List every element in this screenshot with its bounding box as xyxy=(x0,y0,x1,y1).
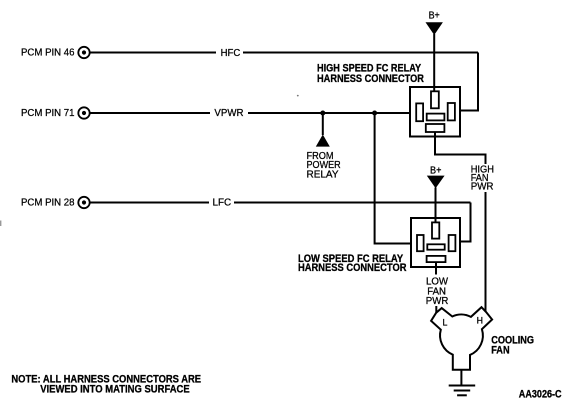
svg-text:HARNESS CONNECTOR: HARNESS CONNECTOR xyxy=(317,73,424,85)
svg-text:LFC: LFC xyxy=(213,197,232,208)
svg-text:PWR: PWR xyxy=(426,296,449,307)
svg-text:B+: B+ xyxy=(430,165,442,176)
svg-text:PCM PIN 46: PCM PIN 46 xyxy=(21,48,75,59)
svg-text:VPWR: VPWR xyxy=(214,108,243,119)
svg-text:AA3026-C: AA3026-C xyxy=(519,389,562,401)
svg-text:PCM PIN 28: PCM PIN 28 xyxy=(21,197,75,208)
svg-text:HARNESS CONNECTOR: HARNESS CONNECTOR xyxy=(298,262,407,274)
svg-text:PCM PIN 71: PCM PIN 71 xyxy=(21,108,75,119)
svg-text:H: H xyxy=(477,316,483,326)
svg-text:FAN: FAN xyxy=(491,344,509,356)
svg-text:B+: B+ xyxy=(429,11,440,22)
svg-text:L: L xyxy=(443,317,448,327)
svg-text:HFC: HFC xyxy=(221,48,241,59)
svg-text:VIEWED INTO MATING SURFACE: VIEWED INTO MATING SURFACE xyxy=(40,384,190,396)
svg-text:PWR: PWR xyxy=(471,181,494,192)
svg-text:RELAY: RELAY xyxy=(307,169,339,180)
